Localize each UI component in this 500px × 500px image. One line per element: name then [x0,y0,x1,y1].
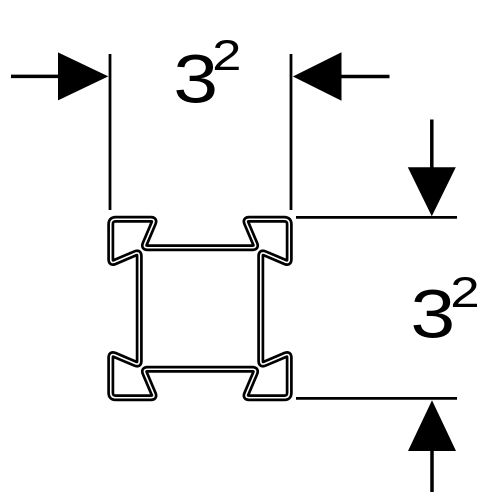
svg-text:2: 2 [212,33,241,80]
right dimension: down arrow [430,120,434,170]
top dimension: right arrow [341,75,390,79]
top dimension: left arrow [11,75,60,79]
right dimension: bottom extension line [296,397,457,400]
profile cross-section outline (outer black contour) [111,219,290,398]
top dimension: right extension line [290,54,293,210]
profile sheet core (white centerline) [111,219,290,398]
right dimension: top extension line [296,216,457,219]
svg-text:3: 3 [410,275,455,352]
top dimension: left extension line [109,54,112,210]
right dimension: up arrow [430,449,434,492]
svg-text:2: 2 [450,269,479,317]
